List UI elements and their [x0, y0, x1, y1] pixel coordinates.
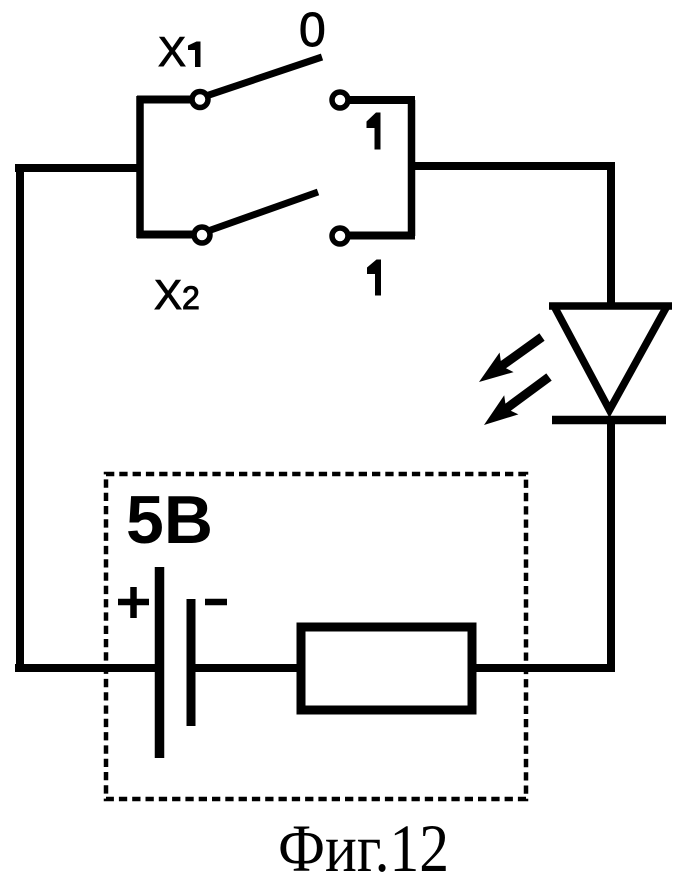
wire: right vertical rail lower (below LED) — [607, 420, 615, 672]
LED VD1 triangle — [554, 306, 667, 410]
wire: top-left horizontal from left rail to switch — [15, 164, 140, 172]
resistor R1 — [301, 627, 472, 710]
switch X2 arm (open) — [208, 192, 318, 231]
label 0 (upper switch position) — [299, 4, 326, 57]
svg-text:5В: 5В — [126, 482, 213, 558]
LED arrow upper — [479, 333, 545, 382]
battery GB negative plate (short) — [187, 599, 196, 726]
label X1 — [158, 28, 201, 75]
wire: switch top-right stub — [348, 96, 415, 104]
label X2 — [154, 271, 200, 318]
wire: switch top-left stub — [137, 96, 192, 104]
battery GB positive plate (long) — [155, 567, 165, 758]
LED arrow lower — [484, 373, 552, 425]
wire: right vertical rail upper (switch output to LED) — [607, 162, 615, 306]
wire: switch bottom-left stub — [137, 231, 194, 239]
switch X2 contact bottom-right — [332, 228, 348, 244]
switch X2 contact bottom-left — [194, 227, 210, 243]
switch frame right vertical — [408, 100, 416, 236]
svg-text:X: X — [154, 271, 182, 318]
wire: bottom horizontal right segment (battery - plate to right rail) — [189, 664, 615, 672]
wire: switch bottom-right stub — [348, 232, 415, 240]
switch frame left vertical — [136, 96, 144, 238]
label 1 (upper right switch position) — [367, 113, 381, 150]
label 1 (lower right switch position) — [367, 260, 381, 296]
battery - sign — [205, 599, 227, 606]
battery + sign — [118, 587, 149, 618]
svg-text:Фиг.12: Фиг.12 — [278, 810, 449, 883]
svg-text:2: 2 — [182, 280, 200, 316]
wire: left vertical rail — [16, 164, 24, 668]
LED VD1 anode top bar — [549, 302, 672, 310]
switch X1 arm (open, pointing to 0) — [206, 57, 322, 96]
svg-text:X: X — [158, 28, 186, 75]
switch X1 contact top-left — [192, 92, 208, 108]
wire: bottom horizontal left segment (to battery + plate) — [15, 664, 157, 672]
label 5В (battery voltage) — [126, 482, 213, 558]
switch X1 contact top-right — [332, 92, 348, 108]
svg-text:0: 0 — [299, 4, 326, 57]
dashed box: power source unit — [106, 474, 526, 799]
caption Фиг.12 — [278, 810, 449, 883]
LED VD1 cathode bar — [552, 416, 666, 425]
wire: switch output horizontal — [411, 162, 611, 170]
